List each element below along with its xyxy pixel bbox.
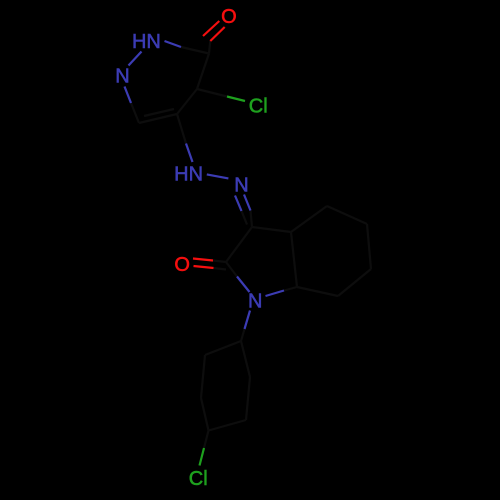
svg-text:N: N	[115, 66, 129, 88]
svg-text:HN: HN	[132, 31, 161, 53]
svg-text:N: N	[234, 175, 248, 197]
svg-text:Cl: Cl	[189, 468, 208, 490]
svg-text:Cl: Cl	[249, 95, 268, 117]
svg-text:O: O	[174, 254, 190, 276]
svg-text:N: N	[248, 291, 262, 313]
svg-text:HN: HN	[174, 163, 203, 185]
svg-text:O: O	[221, 6, 237, 28]
